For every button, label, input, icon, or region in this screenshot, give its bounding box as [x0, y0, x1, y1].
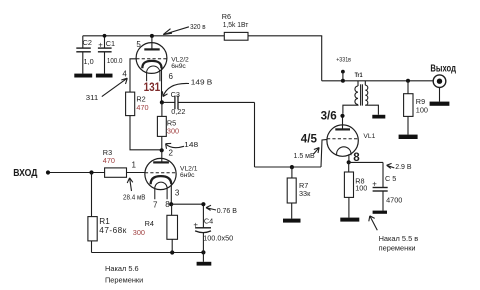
ground bar C5 [373, 211, 387, 214]
svg-text:R1: R1 [99, 217, 110, 226]
resistor R7 [291, 167, 293, 178]
svg-text:VL1: VL1 [363, 133, 375, 140]
svg-text:3: 3 [175, 189, 180, 198]
arrow nakal 5.5 [369, 216, 378, 230]
arrow 1.5mV [314, 148, 320, 155]
arrow 2.9V [387, 163, 395, 168]
arrow 149V [162, 83, 189, 96]
svg-text:1: 1 [132, 161, 137, 170]
capacitor C4 [171, 204, 211, 262]
svg-text:3/6: 3/6 [321, 110, 338, 123]
svg-text:0.76 В: 0.76 В [217, 208, 238, 215]
svg-text:149 В: 149 В [191, 79, 213, 86]
svg-text:ВХОД: ВХОД [13, 168, 37, 179]
wire to VL1 grid run [255, 166, 322, 168]
svg-text:6: 6 [169, 72, 174, 81]
node VL1 cathode [347, 160, 351, 164]
arrow 320v [163, 27, 189, 35]
wire corner down [254, 102, 256, 167]
node VL2/2 plate [150, 34, 154, 38]
svg-text:0,22: 0,22 [171, 107, 185, 116]
svg-text:Переменки: Переменки [105, 275, 143, 284]
svg-text:+: + [372, 179, 377, 188]
svg-text:470: 470 [103, 156, 115, 165]
wire VL1 cathode lead [348, 154, 350, 162]
svg-text:131: 131 [144, 82, 161, 94]
svg-text:100: 100 [355, 184, 367, 193]
capacitor C2 [76, 36, 91, 74]
output connector [433, 75, 446, 102]
resistor R6 [224, 32, 248, 40]
node VL2/1 plate [160, 148, 164, 152]
tube VL2/2 [136, 36, 167, 81]
svg-text:100: 100 [416, 105, 428, 114]
node VL1 plate [340, 114, 344, 118]
svg-text:300: 300 [133, 228, 145, 237]
svg-text:4700: 4700 [386, 195, 402, 204]
svg-text:4: 4 [122, 69, 127, 78]
svg-text:C4: C4 [204, 217, 213, 226]
node R7 top [290, 165, 294, 169]
wire R2 bottom elbow to plate node [130, 116, 162, 150]
ground bar C4 [197, 262, 212, 266]
wire bottom rail [92, 252, 204, 254]
svg-text:100.0: 100.0 [107, 56, 123, 65]
svg-text:C1: C1 [106, 39, 115, 48]
node probe junction [341, 79, 345, 83]
node C1 top [103, 34, 107, 38]
svg-text:300: 300 [167, 127, 179, 136]
arrow 0.76V [206, 205, 216, 210]
resistor R9 [407, 81, 409, 94]
node R4 bottom [170, 250, 174, 254]
node C4 bottom [201, 250, 205, 254]
resistor R2 [126, 92, 135, 116]
svg-text:Tr1: Tr1 [355, 72, 363, 79]
arrow 311 [102, 78, 128, 96]
svg-text:148: 148 [184, 142, 198, 149]
wire probe stub [342, 72, 344, 81]
tube VL1 [327, 116, 358, 157]
wire input [48, 172, 105, 174]
capacitor C3 [164, 96, 178, 110]
svg-text:переменки: переменки [379, 244, 416, 253]
svg-text:7: 7 [153, 201, 158, 210]
svg-text:6н9с: 6н9с [180, 172, 195, 179]
svg-text:470: 470 [136, 103, 148, 112]
resistor R4 [171, 204, 173, 215]
svg-text:320 в: 320 в [190, 24, 206, 31]
svg-text:2.9 В: 2.9 В [395, 164, 412, 171]
svg-text:100.0х50: 100.0х50 [203, 234, 233, 243]
resistor R8 [348, 162, 350, 172]
svg-text:5: 5 [136, 40, 141, 49]
node R9 top [406, 79, 410, 83]
arrow 148 [166, 143, 184, 148]
node input terminal [46, 170, 50, 174]
svg-text:47-68к: 47-68к [99, 226, 126, 235]
ground bar R9 [399, 135, 418, 139]
svg-text:1.5 мВ: 1.5 мВ [294, 153, 315, 160]
node SRPP mid upper [160, 100, 164, 104]
svg-text:4/5: 4/5 [301, 132, 318, 145]
svg-text:+331в: +331в [336, 57, 351, 64]
resistor R1 [91, 173, 93, 217]
node VL2/1 cathode [169, 202, 173, 206]
wire rise to VL1 grid [321, 139, 327, 167]
svg-text:8: 8 [353, 151, 360, 164]
svg-text:+: + [193, 220, 198, 229]
capacitor C1 [98, 36, 112, 74]
wire R6 right to corner [248, 35, 322, 37]
svg-text:28.4 мВ: 28.4 мВ [123, 194, 146, 201]
wire VL2/2 cathode lead [161, 68, 163, 102]
svg-text:1,0: 1,0 [84, 57, 94, 66]
capacitor C5 [349, 162, 388, 210]
svg-text:2: 2 [169, 149, 174, 158]
svg-text:R4: R4 [145, 219, 154, 228]
svg-text:Накал 5.5 в: Накал 5.5 в [379, 234, 419, 243]
ground bar C2 [74, 74, 92, 78]
svg-text:C3: C3 [171, 90, 180, 99]
wire R3 to VL2/1 grid [127, 172, 146, 174]
ground bar R8 [340, 218, 359, 222]
ground bar Tr1 secondary [372, 115, 385, 119]
node R1 junction [89, 170, 93, 174]
svg-text:+: + [98, 41, 103, 50]
ground bar output [430, 102, 450, 106]
ground bar C1 [96, 74, 113, 78]
node +331v probe [341, 70, 345, 74]
wire C3 to corner [178, 101, 255, 103]
ground bar R7 [283, 219, 301, 223]
wire main output rail [322, 80, 434, 82]
arrow 28.4mV [127, 178, 133, 191]
wire corner down to transformer rail [321, 36, 323, 81]
svg-text:6н9с: 6н9с [171, 63, 186, 70]
svg-text:Накал 5.6: Накал 5.6 [105, 264, 139, 273]
resistor R3 [105, 168, 127, 177]
resistor R5 [161, 102, 163, 116]
svg-text:8: 8 [165, 200, 170, 209]
transformer Tr1 [343, 81, 379, 115]
svg-text:Выход: Выход [430, 64, 456, 75]
wire VL2/2 grid to R2 [130, 59, 136, 92]
svg-text:C 5: C 5 [385, 174, 396, 183]
svg-text:C2: C2 [83, 38, 92, 47]
svg-text:311: 311 [86, 95, 99, 102]
node C4 top [201, 202, 205, 206]
wire top rail [83, 35, 225, 37]
wire VL2/1 cathode lead [170, 184, 172, 205]
svg-text:1,5k 1Вт: 1,5k 1Вт [223, 20, 249, 29]
svg-text:33к: 33к [299, 189, 311, 198]
tube VL2/1 [145, 150, 176, 199]
